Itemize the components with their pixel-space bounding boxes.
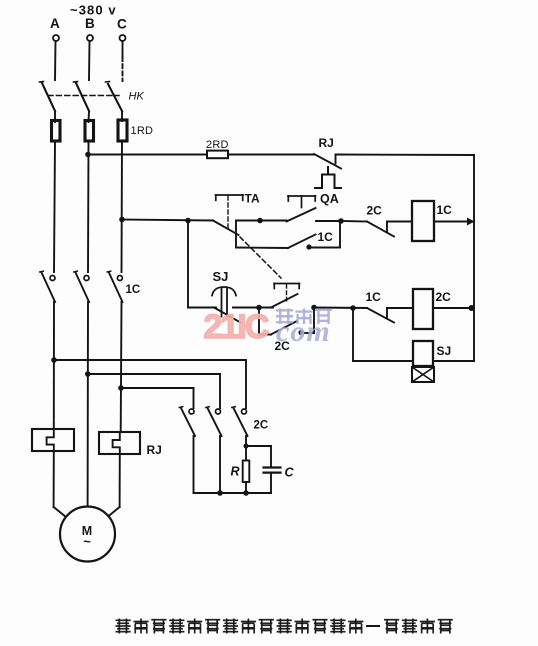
svg-text:QA: QA [320, 192, 339, 206]
svg-text:2C: 2C [367, 204, 383, 218]
svg-text:~: ~ [83, 534, 91, 549]
svg-text:1C: 1C [126, 284, 141, 296]
svg-text:1C: 1C [437, 203, 453, 217]
svg-text:SJ: SJ [213, 269, 229, 284]
svg-text:A: A [50, 16, 60, 31]
svg-text:R: R [231, 465, 240, 479]
svg-text:C: C [285, 466, 295, 480]
svg-text:B: B [85, 16, 95, 31]
svg-text:2RD: 2RD [206, 139, 229, 151]
svg-text:1C: 1C [318, 230, 334, 244]
svg-text:2C: 2C [254, 420, 269, 432]
svg-text:TA: TA [245, 192, 260, 206]
svg-text:RJ: RJ [319, 136, 334, 150]
svg-text:21IC: 21IC [204, 308, 269, 346]
svg-text:2C: 2C [436, 290, 452, 304]
svg-text:1C: 1C [366, 290, 382, 304]
svg-text:RJ: RJ [147, 443, 162, 457]
svg-text:C: C [117, 17, 127, 32]
svg-text:1RD: 1RD [131, 125, 154, 137]
svg-text:HK: HK [129, 91, 145, 103]
svg-text:com: com [276, 315, 331, 348]
svg-text:SJ: SJ [437, 344, 452, 358]
